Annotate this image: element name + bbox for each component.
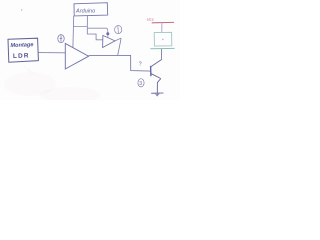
wire: LDR box to op-amp input: [39, 52, 66, 54]
label Montage LDR: [10, 42, 33, 60]
wire: Arduino right pin staircase to buffer input: [87, 16, 103, 40]
svg-text:Montage: Montage: [10, 42, 33, 49]
wire: buffer output up and down to op-amp output line: [115, 38, 121, 55]
svg-text:Arduino: Arduino: [75, 9, 95, 15]
paper background: [0, 0, 180, 100]
Vcc rail (red): [152, 21, 174, 23]
wire: component box down to transistor collector: [161, 49, 163, 60]
wire: op-amp output to transistor base: [89, 55, 151, 71]
box: Arduino U2: [74, 3, 108, 16]
teal underline: [150, 47, 174, 49]
wire: upper branch to node dot: [87, 28, 108, 37]
box: Montage LDR: [8, 38, 38, 62]
svg-text:Vcc: Vcc: [147, 17, 155, 22]
box: teal component (relay): [154, 32, 172, 46]
node dot: [106, 32, 109, 35]
annotation circle 1 (near buffer): [115, 26, 122, 34]
wire: Vcc rail down to component box: [161, 23, 163, 32]
buffer triangle U3: [103, 35, 115, 47]
svg-text:LDR: LDR: [13, 52, 30, 60]
wire: connector between the two Arduino pins: [73, 25, 87, 27]
speck top-left: [21, 9, 22, 10]
ground: [151, 93, 163, 96]
transistor Q1: [151, 60, 162, 95]
annotation circle 3 (near transistor): [138, 79, 144, 87]
teal inner dot: [162, 39, 164, 41]
annotation circle 4 (near op-amp): [58, 35, 64, 43]
wire: Arduino left pin down to op-amp top: [72, 16, 75, 48]
svg-text:?: ?: [139, 62, 142, 68]
op-amp U1 (comparator triangle): [65, 43, 88, 69]
svg-text:3: 3: [139, 81, 142, 87]
pencil smudge lower-left: [24, 66, 33, 74]
